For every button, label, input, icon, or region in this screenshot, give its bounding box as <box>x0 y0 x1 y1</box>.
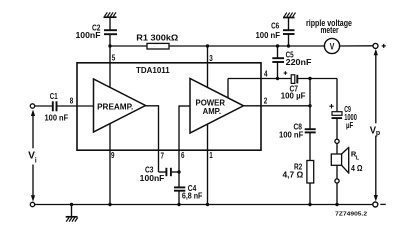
ground (top, at C2) <box>104 12 117 17</box>
wire node to R1 <box>110 45 147 47</box>
resistor R1 <box>147 43 169 49</box>
svg-text:100 nF: 100 nF <box>45 113 69 123</box>
wire ground to C2 <box>109 17 111 30</box>
wire C2 to node <box>109 34 111 46</box>
wire C4 to bottom rail <box>178 191 180 205</box>
Vp measurement arrow line <box>374 49 378 202</box>
node C7 line / C8 branch <box>308 77 311 80</box>
input terminal (signal) <box>30 104 34 108</box>
ground (bottom) <box>66 217 78 222</box>
C1 label <box>45 91 69 123</box>
wire meter to + terminal <box>339 45 373 47</box>
plus sign C7 <box>284 71 288 75</box>
node C3 / pin 6 <box>177 170 180 173</box>
node at C5 <box>276 44 279 47</box>
C5 label <box>286 50 312 68</box>
pin 4 wire (to power amp top) <box>228 79 291 99</box>
svg-text:C1: C1 <box>50 91 58 101</box>
pin 2 label <box>264 97 268 106</box>
svg-text:PREAMP.: PREAMP. <box>97 101 133 111</box>
svg-text:TDA1011: TDA1011 <box>136 65 170 75</box>
svg-text:µF: µF <box>346 120 353 130</box>
wire R1 to voltmeter (top rail) <box>169 45 325 47</box>
svg-text:C6: C6 <box>271 20 279 30</box>
svg-text:100nF: 100nF <box>140 173 165 183</box>
wire circle to speaker <box>336 143 338 154</box>
pin 7 wire (preamp output down) <box>146 105 167 172</box>
capacitor C5 <box>272 46 284 79</box>
terminal - (bottom right) <box>373 202 378 207</box>
plus label <box>382 44 386 48</box>
svg-text:4: 4 <box>264 69 268 78</box>
pin 3 label <box>209 54 213 63</box>
op-amp power amp triangle <box>190 79 244 134</box>
wire R2 to rail <box>309 183 311 205</box>
svg-text:220nF: 220nF <box>286 57 312 67</box>
pin 4 label <box>264 69 268 78</box>
svg-text:4,7 Ω: 4,7 Ω <box>283 170 304 180</box>
R1 value label <box>136 32 178 42</box>
node at C6 <box>287 44 290 47</box>
plus sign C9 <box>329 104 333 108</box>
pin 1 wire <box>207 124 209 204</box>
R2 label <box>283 162 304 180</box>
svg-text:9: 9 <box>111 151 115 160</box>
C4 label <box>182 183 203 200</box>
wire speaker branch top <box>336 79 338 112</box>
svg-text:100 nF: 100 nF <box>279 130 303 140</box>
node Vi label <box>28 149 37 164</box>
Vi measurement arrow line <box>31 110 35 202</box>
capacitor C7 (electrolytic) <box>291 75 297 84</box>
wire C1 to pin 8 <box>57 105 94 107</box>
pin 5 wire <box>109 46 111 88</box>
speaker RL <box>331 147 348 174</box>
node ground stub <box>70 203 73 206</box>
pin 3 wire <box>207 46 209 87</box>
terminal + (top right) <box>373 43 378 48</box>
wire C6 to rail <box>288 34 290 46</box>
svg-text:5: 5 <box>112 54 116 63</box>
svg-text:100 nF: 100 nF <box>256 30 281 40</box>
wire C9 to terminal circle <box>336 118 338 139</box>
svg-text:V: V <box>330 41 335 52</box>
voltmeter V (ripple voltage meter) <box>324 38 339 53</box>
wire C3 to pin 6 column <box>171 171 179 173</box>
ground (top, at C6) <box>283 13 296 18</box>
wire circle to rail <box>336 183 338 205</box>
pin 2 wire (power amp output) <box>244 105 311 107</box>
pin 9 label <box>111 151 115 160</box>
capacitor C3 <box>166 168 171 176</box>
pin 5 label <box>112 54 116 63</box>
svg-text:4 Ω: 4 Ω <box>351 163 363 173</box>
svg-text:R1 300kΩ: R1 300kΩ <box>136 32 178 42</box>
terminal circle speaker bottom <box>335 179 339 183</box>
svg-text:p: p <box>376 130 380 137</box>
RL label <box>351 149 363 172</box>
capacitor C8 <box>305 129 316 132</box>
capacitor C1 <box>53 101 57 111</box>
node Vp label <box>370 124 380 137</box>
C9 label <box>344 104 357 130</box>
node at pin 3 column <box>206 44 209 47</box>
wire terminal to C1 <box>35 105 53 107</box>
svg-text:100 µF: 100 µF <box>281 91 306 101</box>
svg-text:8: 8 <box>70 97 74 106</box>
input terminal (ground side) <box>30 202 34 206</box>
bottom rail wire <box>35 204 374 206</box>
pin 9 wire <box>109 124 111 205</box>
svg-text:meter: meter <box>321 25 340 35</box>
wire C8 branch vertical <box>309 79 311 130</box>
pin 7 label <box>161 151 165 160</box>
svg-text:i: i <box>35 157 37 164</box>
svg-text:1: 1 <box>209 151 213 160</box>
svg-text:7: 7 <box>161 151 165 160</box>
svg-text:AMP.: AMP. <box>203 106 221 116</box>
minus label <box>380 203 385 205</box>
C3 label <box>140 164 165 183</box>
IC U1 TDA1011 box <box>77 63 261 150</box>
svg-text:2: 2 <box>264 97 268 106</box>
ground stub bottom <box>71 205 73 217</box>
pin 6 wire (power amp input) <box>179 105 190 187</box>
svg-text:100nF: 100nF <box>76 30 101 40</box>
capacitor C9 (electrolytic) <box>332 112 343 118</box>
wire ground to C6 <box>288 18 290 31</box>
node R2 / rail <box>308 203 311 206</box>
node speaker / rail <box>335 203 338 206</box>
svg-text:6,8 nF: 6,8 nF <box>182 190 203 200</box>
node at pin 5 column <box>108 44 111 47</box>
pin 8 label <box>70 97 74 106</box>
node C4 / rail <box>177 203 180 206</box>
wire speaker to circle <box>336 165 338 179</box>
pin 6 label <box>181 151 185 160</box>
op-amp preamp triangle <box>94 79 146 132</box>
capacitor C2 <box>104 30 117 34</box>
capacitor C4 <box>174 187 185 190</box>
C8 label <box>279 122 303 140</box>
svg-text:7Z74905.2: 7Z74905.2 <box>335 211 367 217</box>
wire C8 to R2 <box>309 132 311 160</box>
drawing code label <box>335 211 367 217</box>
capacitor C6 <box>283 30 295 34</box>
terminal circle speaker top <box>335 139 339 143</box>
resistor R2 <box>307 161 314 184</box>
node pin9 / rail <box>108 203 111 206</box>
meter caption <box>306 18 352 35</box>
wire C7 to corner <box>297 78 337 80</box>
svg-text:3: 3 <box>209 54 213 63</box>
svg-text:6: 6 <box>181 151 185 160</box>
C2 label <box>76 22 101 40</box>
node pin1 / rail <box>206 203 209 206</box>
node pin2 / C8 branch <box>308 104 311 107</box>
C6 label <box>256 20 281 40</box>
pin 1 label <box>209 151 213 160</box>
svg-text:L: L <box>356 155 360 161</box>
node C5 / pin4 line <box>276 77 279 80</box>
C7 label <box>281 83 306 100</box>
